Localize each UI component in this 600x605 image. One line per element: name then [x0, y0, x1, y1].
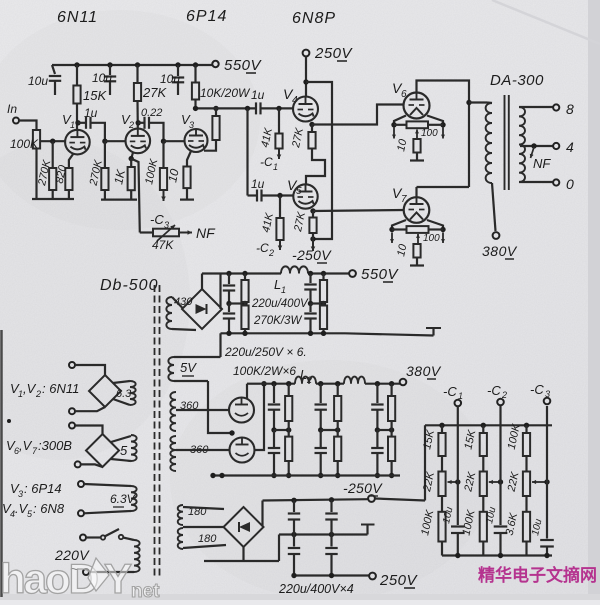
svg-text:100K: 100K	[10, 137, 39, 151]
svg-text:8: 8	[566, 101, 574, 117]
svg-text:6N8P: 6N8P	[292, 10, 336, 27]
svg-text:1u: 1u	[84, 106, 98, 120]
svg-text:100: 100	[423, 233, 440, 244]
svg-text:0.22: 0.22	[141, 107, 162, 119]
svg-text:-C: -C	[256, 241, 269, 255]
svg-text:2: 2	[268, 248, 274, 258]
svg-text:10u: 10u	[28, 74, 48, 88]
svg-text:4: 4	[566, 139, 574, 155]
svg-text:2: 2	[35, 389, 41, 399]
svg-text:1: 1	[281, 285, 286, 295]
svg-text:27K: 27K	[142, 85, 167, 100]
svg-text:220u/250V × 6.: 220u/250V × 6.	[224, 345, 307, 359]
svg-text:DA-300: DA-300	[490, 72, 544, 89]
svg-text:47K: 47K	[152, 238, 174, 252]
svg-text:180: 180	[198, 533, 217, 545]
svg-text:NF: NF	[196, 225, 216, 241]
svg-text:6P14: 6P14	[186, 8, 227, 25]
svg-text:250V: 250V	[314, 45, 354, 62]
svg-text:100: 100	[421, 128, 438, 139]
svg-text:In: In	[7, 102, 17, 116]
svg-text:10K/20W: 10K/20W	[200, 86, 251, 100]
svg-text:-C: -C	[260, 155, 273, 169]
svg-text:220u/400V×4: 220u/400V×4	[278, 582, 354, 596]
svg-text:: 6N11: : 6N11	[42, 381, 79, 396]
svg-text:NF: NF	[533, 156, 551, 171]
svg-text:15K: 15K	[83, 88, 107, 103]
svg-text:-C: -C	[487, 383, 501, 398]
svg-text:270K/3W: 270K/3W	[253, 315, 302, 327]
svg-text:1u: 1u	[251, 88, 265, 102]
svg-text:250V: 250V	[379, 572, 419, 589]
svg-text:-C: -C	[443, 384, 457, 399]
svg-text:-250V: -250V	[343, 480, 383, 496]
svg-text:-250V: -250V	[292, 247, 332, 263]
svg-text:net: net	[131, 581, 160, 600]
svg-text:380V: 380V	[482, 243, 518, 259]
svg-text:6.3: 6.3	[116, 388, 132, 400]
svg-text:1u: 1u	[251, 177, 265, 191]
svg-text:5: 5	[120, 443, 128, 458]
svg-text:Y: Y	[104, 555, 132, 600]
svg-text:haoD: haoD	[0, 555, 98, 600]
svg-text:100K/2W×6: 100K/2W×6	[233, 364, 296, 378]
svg-text:1: 1	[70, 120, 75, 130]
svg-text:精华电子文摘网: 精华电子文摘网	[478, 565, 597, 585]
svg-text:550V: 550V	[361, 266, 400, 283]
svg-text:10u: 10u	[160, 72, 180, 86]
svg-text:10u: 10u	[92, 71, 112, 85]
svg-text:Db-500: Db-500	[100, 277, 158, 294]
svg-text:1: 1	[273, 162, 278, 172]
svg-text:6.3V: 6.3V	[110, 492, 136, 506]
svg-text:0: 0	[566, 176, 574, 192]
svg-text:380V: 380V	[406, 363, 442, 379]
svg-text:550V: 550V	[224, 57, 263, 74]
svg-text:5V: 5V	[180, 360, 197, 375]
svg-text:6N11: 6N11	[57, 9, 98, 26]
svg-text:-C: -C	[530, 382, 544, 397]
svg-text:220u/400V: 220u/400V	[251, 298, 309, 310]
svg-text:-C: -C	[150, 212, 164, 227]
svg-text:,V: ,V	[23, 381, 37, 396]
svg-text:3: 3	[18, 489, 23, 499]
svg-text:,V: ,V	[19, 438, 33, 453]
svg-text:: 6P14: : 6P14	[24, 481, 62, 496]
svg-text::300B: :300B	[38, 438, 72, 453]
svg-text:: 6N8: : 6N8	[33, 501, 65, 516]
